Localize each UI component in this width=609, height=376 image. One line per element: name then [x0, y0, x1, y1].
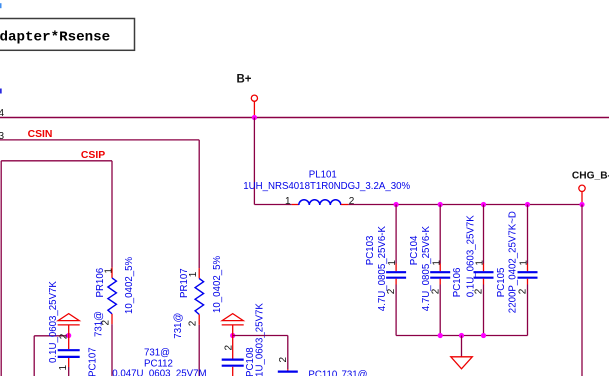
wire ground stem	[461, 336, 463, 357]
capacitor PC105	[518, 205, 538, 336]
svg-text:0.1U_0603_25V7K: 0.1U_0603_25V7K	[255, 303, 266, 376]
svg-text:1: 1	[285, 196, 291, 207]
svg-text:dapter*Rsense: dapter*Rsense	[0, 30, 110, 46]
svg-text:2: 2	[188, 320, 199, 326]
svg-text:2: 2	[224, 345, 235, 351]
svg-text:3: 3	[0, 131, 5, 142]
svg-text:2: 2	[59, 333, 70, 339]
svg-text:0.047U_0603_25V7M: 0.047U_0603_25V7M	[112, 368, 206, 376]
svg-text:10_0402_5%: 10_0402_5%	[124, 257, 135, 314]
svg-text:PC106: PC106	[452, 268, 463, 298]
svg-text:2: 2	[518, 288, 529, 294]
wire PC110 horizontal	[233, 335, 288, 337]
wire bottom-left vertical	[33, 336, 35, 376]
junction PC105 top	[525, 202, 530, 207]
svg-text:PC107: PC107	[88, 347, 99, 376]
wire CSIP horizontal	[1, 160, 112, 162]
svg-text:PL101: PL101	[309, 169, 337, 180]
power arrow at PC107	[58, 314, 80, 336]
svg-text:PR106: PR106	[95, 268, 106, 298]
svg-text:PC105: PC105	[496, 268, 507, 298]
svg-text:731@: 731@	[342, 369, 368, 376]
pin B+ terminal	[253, 101, 255, 117]
wire main B+ bus	[0, 117, 609, 119]
capacitor PC110	[278, 369, 298, 376]
resistor PR106	[108, 267, 117, 376]
svg-text:2: 2	[278, 357, 289, 363]
svg-text:PC103: PC103	[365, 236, 376, 266]
resistor PR107	[195, 268, 204, 376]
svg-text:1: 1	[431, 260, 442, 266]
wire inductor output bus	[348, 204, 582, 206]
svg-text:4.7U_0805_25V6-K: 4.7U_0805_25V6-K	[377, 226, 388, 312]
pin red inductor right	[341, 204, 349, 206]
wire B+ down	[253, 118, 255, 205]
wire CSIP vertical to PR106	[111, 161, 113, 268]
junction CHG_B- bus	[579, 202, 584, 207]
svg-text:PC104: PC104	[409, 235, 420, 265]
svg-text:2200P_0402_25V7K~D: 2200P_0402_25V7K~D	[508, 211, 519, 313]
svg-text:731@: 731@	[94, 311, 105, 337]
capacitor PC108	[222, 336, 244, 376]
comment box Iadapter*Rsense	[0, 19, 135, 51]
capacitor PC103	[386, 205, 406, 336]
svg-text:2: 2	[349, 196, 355, 207]
svg-text:CSIN: CSIN	[28, 129, 53, 140]
capacitor PC107	[58, 336, 80, 376]
junction PC103 top	[394, 202, 399, 207]
capacitor PC106	[474, 205, 494, 336]
wire CSIN vertical	[198, 140, 200, 268]
svg-text:4: 4	[0, 108, 5, 119]
wire capacitor bank bottom bus	[396, 335, 527, 337]
ground symbol	[451, 357, 473, 369]
junction PC104 top	[438, 202, 443, 207]
blue fragment top-left	[0, 3, 2, 8]
junction PC106 bottom	[481, 333, 486, 338]
svg-text:731@: 731@	[173, 313, 184, 339]
svg-text:0.1U_0603_25V7K: 0.1U_0603_25V7K	[466, 215, 477, 297]
pin red inductor left	[292, 204, 299, 206]
wire CHG_B- vertical	[581, 205, 583, 376]
wire bottom-left horizontal	[34, 335, 68, 337]
inductor PL101 coils	[299, 200, 341, 205]
svg-text:1UH_NRS4018T1R0NDGJ_3.2A_30%: 1UH_NRS4018T1R0NDGJ_3.2A_30%	[243, 181, 410, 192]
svg-text:4.7U_0805_25V6-K: 4.7U_0805_25V6-K	[421, 226, 432, 312]
terminal circle B+	[251, 95, 257, 101]
svg-text:B+: B+	[237, 74, 252, 86]
capacitor PC104	[430, 205, 450, 336]
power arrow at PC108	[222, 314, 244, 336]
blue fragment left edge	[0, 89, 2, 94]
junction PC108 top	[230, 333, 235, 338]
svg-text:CSIP: CSIP	[81, 150, 105, 161]
wire CSIP left vertical	[0, 161, 2, 376]
svg-text:PC110: PC110	[308, 369, 338, 376]
svg-text:CHG_B-: CHG_B-	[572, 171, 609, 182]
wire CSIN horizontal	[0, 139, 199, 141]
svg-text:1: 1	[387, 260, 398, 266]
junction B+ bus	[252, 115, 257, 120]
svg-text:1: 1	[519, 260, 530, 266]
terminal circle CHG_B-	[579, 185, 585, 191]
wire PC110 vertical	[287, 336, 289, 370]
svg-text:731@: 731@	[144, 348, 170, 359]
svg-text:PR107: PR107	[179, 268, 190, 298]
svg-text:0.1U_0603_25V7K: 0.1U_0603_25V7K	[48, 281, 59, 363]
svg-text:1: 1	[58, 365, 69, 371]
svg-text:10_0402_5%: 10_0402_5%	[212, 256, 223, 313]
junction ground tap	[459, 333, 464, 338]
junction PC107 top	[66, 333, 71, 338]
pin CHG_B- terminal	[581, 192, 583, 205]
wire to inductor pin1	[254, 204, 291, 206]
junction PC104 bottom	[438, 333, 443, 338]
junction PC106 top	[481, 202, 486, 207]
